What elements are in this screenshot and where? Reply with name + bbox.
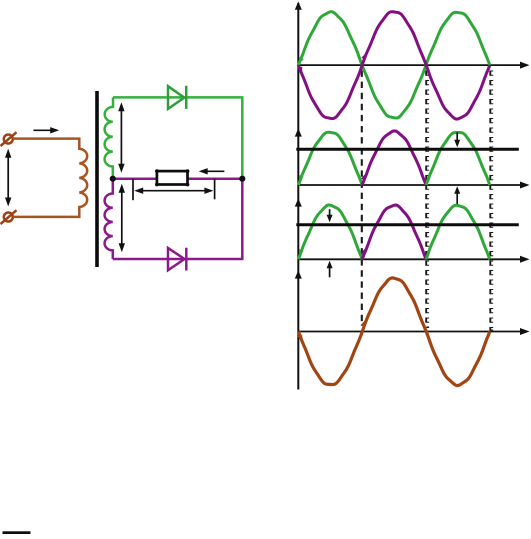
wire: load branch from centre tap xyxy=(113,177,243,180)
stroke tip purple curve plot 1 rising zero xyxy=(361,53,366,60)
stroke tip on brown curve (rising zero) xyxy=(361,320,366,327)
x-axis plot 1 xyxy=(298,64,521,66)
secondary winding (top, green) xyxy=(105,97,113,178)
partial black bar (bottom-left crop artifact) xyxy=(3,531,31,534)
waveform: primary voltage u1 (brown sine) xyxy=(298,278,489,386)
dimension tick right xyxy=(214,179,216,200)
stroke tip purple hump plot 3 xyxy=(361,248,365,254)
transformer core xyxy=(95,91,99,267)
terminal X2 xyxy=(1,210,17,224)
stroke tip green hump plot 2 xyxy=(299,175,303,181)
x-axis plot 2 xyxy=(298,184,521,186)
secondary winding (bottom, purple) xyxy=(105,179,113,259)
arrow: up to axis (plot 2) xyxy=(456,192,458,205)
waveform: load current, hump 1 (green) xyxy=(298,205,362,259)
stroke tip purple curve plot 1 xyxy=(298,67,303,74)
arrow: ripple down (plot 3) xyxy=(329,209,331,216)
arrow: primary current direction xyxy=(33,129,55,131)
arrow: top secondary voltage (double-headed) xyxy=(120,108,122,167)
node B (right load junction) xyxy=(239,176,245,182)
axis arrowhead plot 3 xyxy=(295,198,302,206)
arrow: load current direction xyxy=(203,170,224,172)
waveform: load current, hump 3 (green) xyxy=(426,205,490,259)
x-axis plot 4 xyxy=(298,331,521,333)
diode VD1 xyxy=(168,86,186,109)
dimension tick left xyxy=(132,179,134,201)
dashed time marker t1 xyxy=(361,71,363,327)
dashed time marker t2 xyxy=(425,71,427,328)
axis arrowhead plot 4 xyxy=(295,270,302,278)
resistor R (load) xyxy=(157,171,188,184)
arrow: ripple down (plot 2) xyxy=(456,132,458,141)
axis arrowhead plot 1 xyxy=(295,2,302,10)
node A (centre tap junction) xyxy=(110,176,116,182)
waveform: diode VD1 current, hump 1 (green) xyxy=(298,132,362,185)
waveform: load current, hump 2 (purple) xyxy=(362,205,426,259)
axis arrowhead plot 2 xyxy=(295,128,302,136)
stroke tip on brown curve (origin) xyxy=(298,335,303,342)
wire: bottom secondary loop (purple) xyxy=(113,179,243,259)
dashed time marker t3 xyxy=(489,71,491,331)
x-axis plot 3 xyxy=(298,258,521,260)
waveform: diode VD2 current, hump 2 (purple) xyxy=(362,131,426,185)
arrow: bottom secondary voltage (double-headed) xyxy=(121,190,123,248)
stroke tip green curve plot 1 xyxy=(299,57,304,64)
waveform common vertical axis xyxy=(297,3,299,390)
wire: top secondary loop (green) xyxy=(113,97,242,178)
resistor corner blobs xyxy=(155,169,189,186)
terminal X1 xyxy=(1,132,17,146)
DC level line (plot 2) xyxy=(296,148,519,151)
primary winding L1 xyxy=(13,139,87,217)
waveform: secondary voltage u2-1 (green sine) xyxy=(298,12,489,118)
arrow: load voltage (double-headed) xyxy=(140,190,209,192)
arrow: up to axis (plot 3) xyxy=(329,266,331,277)
arrow: primary voltage (double-headed) xyxy=(7,155,9,200)
waveform: secondary voltage u2-2 (purple sine, antiphase) xyxy=(298,12,489,119)
stroke tip green hump plot 3 xyxy=(299,249,303,255)
stroke tip purple hump plot 2 xyxy=(361,174,365,180)
diode VD2 xyxy=(168,248,186,271)
DC level line (plot 3) xyxy=(296,223,519,226)
waveform: diode VD1 current, hump 3 (green) xyxy=(426,133,490,186)
